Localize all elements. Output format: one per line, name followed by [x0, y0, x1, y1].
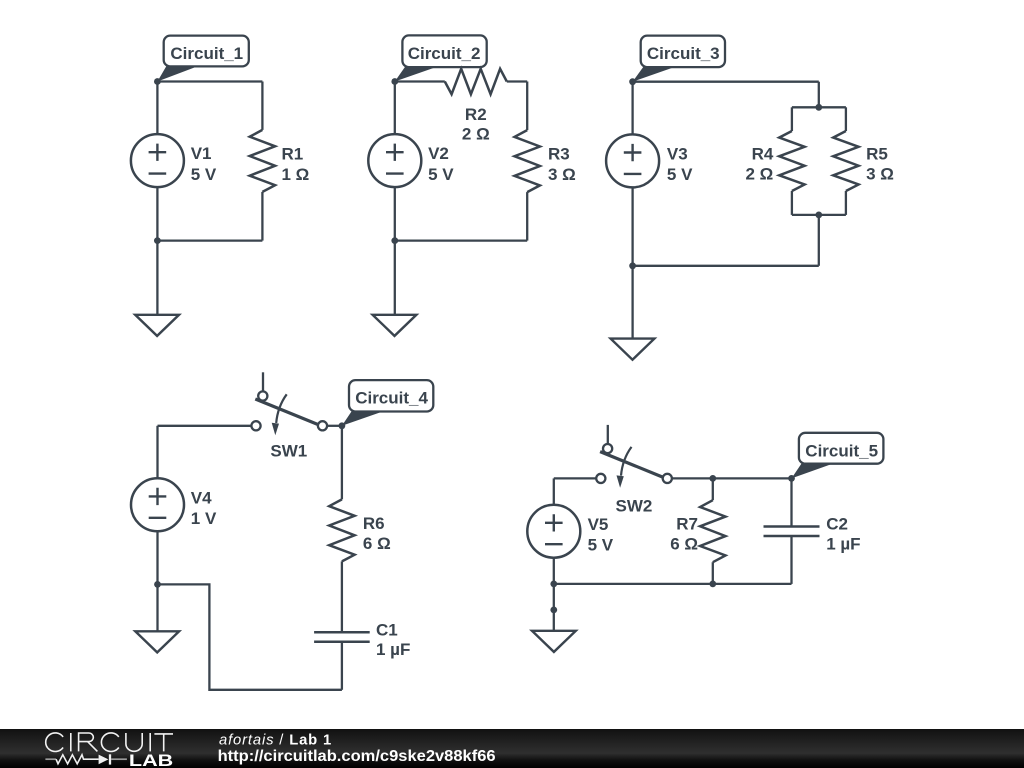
svg-text:LAB: LAB [129, 752, 173, 768]
svg-text:5 V: 5 V [667, 165, 693, 184]
CircuitLab logo resistor-diode squiggle [45, 754, 127, 764]
wire R1 bottom lead [261, 192, 263, 241]
node C2 top junction dot [788, 475, 795, 482]
node parallel bottom junction dot [815, 212, 822, 219]
svg-text:V2: V2 [428, 144, 449, 163]
switch SW2 [596, 425, 672, 515]
svg-text:1 Ω: 1 Ω [282, 165, 310, 184]
svg-text:2 Ω: 2 Ω [745, 165, 773, 184]
wire parallel drop [818, 82, 820, 108]
voltage source V4 [131, 478, 217, 531]
wire top rail circuit 3 [633, 81, 819, 83]
capacitor C1 [314, 620, 410, 659]
wire R6 to C1 [341, 561, 343, 632]
resistor R5 [833, 131, 894, 191]
wire switch right circuit 4 [327, 425, 342, 427]
wire R2 right lead [507, 80, 527, 82]
node label callout Circuit_1 [157, 36, 248, 82]
wire R5 bottom lead [845, 191, 847, 215]
svg-text:3 Ω: 3 Ω [866, 165, 894, 184]
svg-text:Circuit_5: Circuit_5 [805, 441, 878, 460]
wire R1 top lead [261, 82, 263, 130]
wire V3 bottom lead [631, 187, 633, 266]
svg-text:6 Ω: 6 Ω [670, 535, 698, 554]
node switch output junction dot [339, 422, 346, 429]
svg-text:3 Ω: 3 Ω [548, 165, 576, 184]
wire right drop circuit 2 [526, 82, 528, 131]
wire to ground circuit 1 [156, 241, 158, 315]
wire bottom rail circuit 2 [395, 239, 527, 241]
wire switch right circuit 5 [672, 477, 713, 479]
svg-text:Circuit_3: Circuit_3 [647, 44, 720, 63]
wire bottom rail circuit 1 [157, 239, 262, 241]
ground GND4 [135, 631, 179, 652]
wire V5 bottom lead [553, 558, 555, 584]
svg-text:SW1: SW1 [270, 441, 307, 460]
node bottom rail junction dot left [550, 581, 557, 588]
wire to ground circuit 2 [394, 241, 396, 315]
svg-text:V1: V1 [191, 144, 212, 163]
svg-text:Circuit_4: Circuit_4 [355, 389, 428, 408]
svg-text:R4: R4 [752, 145, 774, 164]
wire R4 bottom lead [791, 191, 793, 215]
resistor R6 [329, 499, 391, 561]
svg-text:6 Ω: 6 Ω [363, 534, 391, 553]
node ground junction dot circuit 3 [629, 262, 636, 269]
node ground junction dot circuit 4 [154, 581, 161, 588]
svg-text:Circuit_1: Circuit_1 [170, 44, 243, 63]
wire to ground circuit 3 [631, 266, 633, 339]
wire V1 top lead [156, 82, 158, 135]
svg-text:R6: R6 [363, 514, 385, 533]
node A2 junction dot [391, 78, 398, 85]
wire parallel top bar [792, 106, 846, 108]
node label callout Circuit_5 [792, 433, 884, 479]
node label callout Circuit_2 [395, 35, 487, 81]
svg-text:R7: R7 [676, 515, 698, 534]
svg-text:1 µF: 1 µF [376, 640, 410, 659]
node ground junction dot circuit 1 [154, 237, 161, 244]
wire switch left circuit 5 [554, 477, 596, 479]
svg-text:SW2: SW2 [616, 496, 653, 515]
wire R6 top lead [341, 426, 343, 500]
svg-text:5 V: 5 V [191, 165, 217, 184]
resistor R4 [745, 131, 804, 191]
svg-text:V4: V4 [191, 488, 212, 507]
wire V1 bottom lead [156, 187, 158, 241]
wire to ground circuit 4 [156, 584, 158, 631]
svg-text:R5: R5 [866, 145, 888, 164]
wire C2 bottom lead [790, 536, 792, 584]
CircuitLab logo CIRCUIT wordmark [46, 733, 173, 752]
node ground junction dot circuit 2 [391, 237, 398, 244]
svg-text:5 V: 5 V [588, 535, 614, 554]
svg-text:R1: R1 [282, 144, 304, 163]
wire V2 top lead [394, 82, 396, 135]
wire top rail to C2 [713, 477, 792, 479]
wire R5 top lead [845, 107, 847, 131]
node label callout Circuit_4 [342, 380, 433, 426]
svg-text:1 µF: 1 µF [826, 534, 860, 553]
capacitor C2 [764, 514, 861, 553]
svg-text:1 V: 1 V [191, 509, 217, 528]
node A3 junction dot [629, 78, 636, 85]
resistor R7 [670, 500, 725, 562]
ground GND2 [373, 315, 417, 336]
resistor R1 [250, 130, 310, 192]
switch SW1 [251, 372, 327, 460]
wire V4 bottom lead [156, 531, 158, 584]
ground GND5 [532, 631, 576, 652]
wire bottom return circuit 4 [158, 584, 342, 689]
wire parallel bottom bar [792, 214, 846, 216]
resistor R3 [515, 130, 576, 192]
svg-text:C1: C1 [376, 620, 398, 639]
wire bottom rail circuit 5 [554, 583, 792, 585]
wire parallel bottom drop [818, 215, 820, 266]
wire bottom rail circuit 3 [633, 265, 819, 267]
wire V5 top lead [553, 478, 555, 505]
wire C1 bottom lead [341, 642, 343, 690]
ground GND1 [135, 315, 179, 336]
svg-text:http://circuitlab.com/c9ske2v8: http://circuitlab.com/c9ske2v88kf66 [218, 748, 496, 765]
svg-text:V5: V5 [588, 515, 609, 534]
voltage source V3 [606, 134, 693, 187]
wire R7 bottom lead [712, 562, 714, 584]
wire V2 bottom lead [394, 187, 396, 241]
wire R3 bottom lead [526, 192, 528, 241]
ground GND3 [611, 339, 655, 360]
resistor R2 [445, 69, 507, 144]
svg-text:afortais / Lab 1: afortais / Lab 1 [219, 732, 332, 748]
node parallel top junction dot [815, 104, 822, 111]
wire V4 top lead [156, 426, 158, 479]
wire top rail circuit 1 [157, 80, 262, 82]
svg-text:Circuit_2: Circuit_2 [408, 44, 481, 63]
wire R2 left lead [395, 80, 445, 82]
voltage source V5 [527, 505, 613, 558]
node R7 bottom junction dot [709, 581, 716, 588]
svg-text:5 V: 5 V [428, 165, 454, 184]
voltage source V2 [368, 134, 454, 187]
node A1 junction dot [154, 78, 161, 85]
wire V3 top lead [631, 82, 633, 135]
svg-text:C2: C2 [826, 514, 848, 533]
footer author line [219, 732, 332, 748]
CircuitLab logo LAB wordmark [129, 752, 173, 768]
svg-text:2 Ω: 2 Ω [462, 125, 490, 144]
wire to ground circuit 5 [553, 584, 555, 631]
wire switch left circuit 4 [158, 425, 252, 427]
node R7 top junction dot [709, 475, 716, 482]
wire C2 top lead [790, 478, 792, 526]
node label callout Circuit_3 [633, 36, 725, 82]
svg-text:R3: R3 [548, 144, 570, 163]
svg-text:V3: V3 [667, 145, 688, 164]
wire R7 top lead [712, 478, 714, 500]
wire R4 top lead [791, 107, 793, 131]
node ground stub junction dot circuit 5 [550, 607, 557, 614]
footer bar [0, 729, 1024, 768]
footer url line [218, 748, 496, 765]
svg-text:R2: R2 [465, 105, 487, 124]
voltage source V1 [131, 134, 217, 187]
